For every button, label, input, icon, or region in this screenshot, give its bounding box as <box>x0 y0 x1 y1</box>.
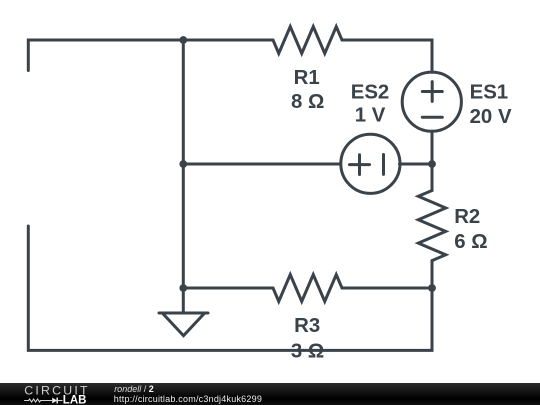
svg-text:R1: R1 <box>294 67 320 89</box>
resistor R1 <box>273 27 342 54</box>
wire right of R3 <box>342 287 432 290</box>
CircuitLab logo <box>0 383 110 405</box>
wire node to R2 <box>431 164 434 191</box>
wire ground lead <box>182 288 185 313</box>
node B junction dot <box>428 160 436 168</box>
svg-text:R3: R3 <box>294 315 320 337</box>
svg-text:20 V: 20 V <box>470 106 512 128</box>
node E junction dot <box>179 160 187 168</box>
wire ES1 bottom to node <box>431 131 434 164</box>
voltage source ES2 <box>341 134 400 193</box>
footer bar <box>0 383 540 405</box>
node D junction dot <box>428 284 436 292</box>
svg-text:ES2: ES2 <box>351 81 390 103</box>
title text <box>114 384 154 394</box>
svg-text:LAB: LAB <box>63 394 87 405</box>
svg-text:ES1: ES1 <box>470 81 509 103</box>
wire left of R3 <box>183 287 273 290</box>
wire middle vertical <box>182 40 185 288</box>
ground <box>159 313 208 336</box>
resistor R3 <box>273 275 342 302</box>
node C junction dot <box>179 284 187 292</box>
svg-text:6 Ω: 6 Ω <box>454 231 487 253</box>
wire bottom loop <box>28 226 432 350</box>
svg-text:1 V: 1 V <box>355 105 386 127</box>
wire ES2 to node <box>400 163 433 166</box>
resistor R2 <box>418 191 445 261</box>
svg-text:R2: R2 <box>454 206 480 228</box>
url text <box>114 394 262 404</box>
svg-text:3 Ω: 3 Ω <box>291 341 324 363</box>
svg-text:8 Ω: 8 Ω <box>291 91 324 113</box>
wire top-left with stub <box>28 40 273 71</box>
wire top-right <box>342 40 432 72</box>
wire R2 to node B <box>431 261 434 288</box>
voltage source ES1 <box>402 72 461 131</box>
node A junction dot <box>179 36 187 44</box>
wire node to ES2 <box>183 163 340 166</box>
